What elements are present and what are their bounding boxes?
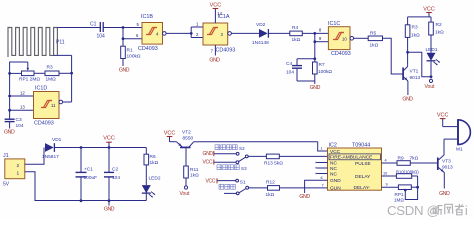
svg-text:LED2: LED2 [149,176,161,182]
svg-text:R12: R12 [266,179,275,185]
svg-text:Vout: Vout [425,84,436,90]
svg-text:VCC: VCC [206,179,216,185]
svg-text:NC: NC [330,160,337,166]
svg-text:VCC: VCC [203,160,213,166]
svg-text:5V: 5V [3,182,10,188]
svg-text:1kΩ: 1kΩ [370,43,379,49]
svg-text:1kΩ: 1kΩ [266,192,275,198]
svg-text:1kΩ: 1kΩ [435,30,444,36]
svg-text:R2: R2 [436,22,442,28]
svg-text:1kΩ: 1kΩ [190,172,199,178]
svg-text:M1: M1 [456,147,463,153]
svg-text:IC1B: IC1B [141,14,153,20]
svg-text:GND: GND [119,68,130,74]
svg-text:VCC: VCC [423,6,435,12]
svg-text:1MΩ: 1MΩ [46,77,57,83]
svg-text:R6: R6 [150,154,156,160]
svg-text:100uF: 100uF [84,175,98,181]
svg-text:104: 104 [286,70,294,76]
svg-text:R13 5kΩ: R13 5kΩ [264,161,283,167]
svg-text:NC: NC [330,166,337,172]
svg-text:100kΩ: 100kΩ [127,54,141,60]
svg-text:GND: GND [310,85,321,91]
svg-text:VT2: VT2 [182,129,191,135]
svg-text:104: 104 [16,123,24,129]
svg-text:P11: P11 [56,40,65,46]
svg-text:6: 6 [321,176,323,180]
svg-text:R7: R7 [319,62,325,68]
svg-text:9013: 9013 [410,75,421,81]
svg-text:1MΩ: 1MΩ [394,197,404,202]
svg-text:1kΩ: 1kΩ [292,37,301,43]
svg-text:CD4093: CD4093 [216,48,236,54]
svg-text:R4: R4 [292,25,298,31]
svg-text:GND: GND [203,151,214,157]
svg-text:7kΩ: 7kΩ [410,155,419,161]
svg-text:1: 1 [321,147,323,151]
svg-text:DELAY-: DELAY- [354,185,371,191]
svg-text:1kΩ: 1kΩ [150,160,159,166]
svg-text:R3: R3 [47,65,53,71]
svg-text:2: 2 [17,163,20,169]
svg-text:VCC: VCC [103,135,115,141]
svg-text:9: 9 [386,183,388,187]
svg-text:4: 4 [385,158,387,162]
svg-text:GND: GND [104,207,115,213]
svg-text:CD4093: CD4093 [34,121,54,127]
svg-text:PULSE: PULSE [355,161,371,167]
svg-text:11: 11 [51,103,56,108]
svg-text:+C1: +C1 [84,167,93,173]
svg-text:IC2: IC2 [329,143,337,149]
svg-text:R1: R1 [127,48,133,54]
svg-text:R5: R5 [370,31,376,37]
svg-text:13: 13 [20,105,25,110]
svg-text:VT3: VT3 [442,158,451,164]
svg-text:GND: GND [4,130,15,136]
svg-text:i: i [465,203,468,218]
svg-text:12: 12 [20,90,25,95]
svg-text:VD2: VD2 [256,22,266,28]
svg-text:R10(100kΩ): R10(100kΩ) [396,169,419,174]
svg-text:GUN: GUN [330,186,341,192]
svg-text:LED1: LED1 [426,47,438,53]
svg-text:7: 7 [322,184,324,188]
svg-text:R9: R9 [398,155,404,161]
svg-text:R11: R11 [190,167,199,173]
svg-text:S1: S1 [240,179,246,185]
svg-text:104: 104 [112,175,120,181]
svg-text:VCC: VCC [210,2,222,8]
svg-text:10: 10 [383,171,387,175]
svg-text:10: 10 [342,37,347,42]
svg-text:GND: GND [330,178,341,184]
svg-text:GND: GND [299,194,310,200]
svg-text:C2: C2 [112,167,118,173]
svg-text:1: 1 [17,171,20,177]
svg-text:R3: R3 [412,25,418,31]
svg-text:9013: 9013 [442,165,453,171]
svg-text:C4: C4 [286,61,292,67]
svg-text:CD4093: CD4093 [331,51,351,57]
svg-text:C3: C3 [16,117,22,123]
svg-text:VT1: VT1 [410,69,419,75]
svg-text:NC: NC [330,171,337,177]
svg-text:GND: GND [402,97,413,103]
svg-text:1N4148: 1N4148 [252,40,269,46]
svg-text:IC1D: IC1D [35,86,47,92]
svg-text:IC1C: IC1C [328,21,340,27]
svg-text:1N5817: 1N5817 [42,154,59,160]
svg-text:VCC: VCC [164,130,176,136]
svg-text:104: 104 [97,34,106,40]
svg-text:RP1 2MΩ: RP1 2MΩ [19,77,40,83]
svg-text:GND: GND [209,58,220,64]
svg-text:DELAY: DELAY [355,174,371,180]
svg-text:14: 14 [217,11,222,16]
svg-text:T09044: T09044 [352,143,370,149]
svg-text:S3: S3 [241,166,247,171]
svg-text:C1: C1 [90,22,97,28]
svg-text:CD4093: CD4093 [138,46,158,52]
svg-text:VD1: VD1 [52,137,62,143]
svg-text:GND: GND [439,191,450,197]
svg-text:1kΩ: 1kΩ [411,32,420,38]
svg-text:CSDN @: CSDN @ [387,203,440,218]
svg-text:8550: 8550 [183,135,194,141]
svg-text:100kΩ: 100kΩ [318,69,332,75]
svg-text:Vout: Vout [180,191,191,197]
svg-text:S2: S2 [239,146,245,151]
svg-text:J1: J1 [3,153,9,159]
svg-text:VCC: VCC [437,112,449,118]
